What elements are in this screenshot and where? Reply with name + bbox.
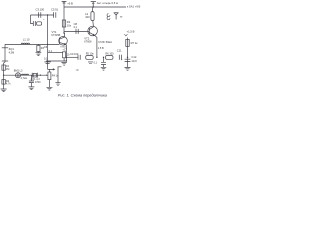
- svg-text:0,5 Вт 50мА: 0,5 Вт 50мА: [98, 41, 112, 44]
- terminal +9V left: [62, 1, 67, 3]
- svg-text:≈0: ≈0: [76, 69, 79, 72]
- crystal plate top: [2, 47, 8, 49]
- resistor R7: [126, 39, 129, 46]
- ground right: [125, 67, 131, 70]
- svg-text:+1,5 В: +1,5 В: [127, 30, 135, 34]
- wire stub C7: [63, 58, 65, 61]
- wire feedback stub: [31, 15, 34, 24]
- ground C10: [101, 67, 107, 70]
- svg-text:С9 100: С9 100: [70, 53, 79, 56]
- svg-text:C5 91: C5 91: [51, 8, 59, 12]
- wire vertical V1: [47, 15, 49, 69]
- plate bottom x58: [55, 83, 60, 86]
- wire base rail left: [5, 43, 59, 45]
- trimmer wiper arrow: [48, 69, 55, 72]
- node W1 V1: [47, 44, 48, 45]
- svg-text:0,1: 0,1: [44, 57, 48, 60]
- svg-text:4,7мк: 4,7мк: [21, 77, 28, 80]
- svg-text:4,7к: 4,7к: [6, 82, 11, 85]
- capacitor C4: [33, 21, 35, 26]
- svg-text:0,1: 0,1: [49, 50, 53, 53]
- wire right vertical: [127, 38, 129, 68]
- node emitter W2 right: [66, 57, 67, 58]
- node collector VT1: [63, 32, 64, 33]
- coupling coil: [107, 14, 110, 20]
- svg-text:10,0: 10,0: [131, 59, 137, 63]
- svg-text:R6 100: R6 100: [106, 52, 115, 55]
- resistor R3: [37, 44, 39, 45]
- wire base VT2: [64, 30, 89, 32]
- node V1 top: [47, 14, 48, 15]
- wire R4 ground: [48, 80, 50, 88]
- ground R4: [46, 87, 52, 90]
- transistor VT1: [59, 37, 68, 46]
- svg-text:100: 100: [85, 15, 90, 19]
- antenna aux: [114, 13, 119, 20]
- ground mic branch: [29, 87, 35, 90]
- node C10: [103, 57, 104, 58]
- node mic wire: [3, 75, 4, 76]
- capacitor C9: [78, 55, 80, 60]
- svg-text:*: *: [43, 19, 44, 22]
- wire W2 left: [46, 60, 66, 62]
- wire mid horizontal upper: [48, 51, 63, 53]
- svg-text:4700: 4700: [35, 81, 41, 84]
- ground R3: [36, 52, 42, 56]
- svg-text:BM1 L3: BM1 L3: [14, 69, 23, 72]
- capacitor C8: [76, 29, 78, 34]
- svg-text:L1 10: L1 10: [23, 37, 30, 41]
- wire vertical V2: [63, 1, 65, 33]
- svg-text:R7 1к: R7 1к: [131, 41, 139, 45]
- svg-text:R5 10к: R5 10к: [86, 52, 95, 55]
- svg-text:С12: С12: [131, 55, 136, 59]
- capacitor C3: [39, 12, 41, 18]
- wire emitter VT1: [65, 45, 68, 62]
- dash aux: [120, 16, 122, 18]
- resistor R5: [86, 56, 94, 60]
- node emitter VT1 W2: [66, 60, 67, 61]
- svg-text:Рис. 1. Схема передатчика: Рис. 1. Схема передатчика: [58, 93, 107, 97]
- capacitor C10: [103, 57, 105, 62]
- node before R4: [40, 75, 41, 76]
- resistor R6: [106, 56, 114, 60]
- inductor L2: [91, 12, 94, 21]
- svg-text:ZQ1: ZQ1: [9, 47, 15, 51]
- inductor L4: [37, 22, 42, 25]
- capacitor branch mic: [30, 75, 32, 81]
- wire collector VT2: [92, 21, 95, 27]
- wire emitter VT2: [95, 35, 97, 57]
- ground C7: [61, 62, 66, 65]
- resistor R1: [2, 65, 5, 70]
- svg-text:1М: 1М: [6, 68, 9, 71]
- capacitor C5: [54, 12, 56, 18]
- arrow into R4: [46, 74, 48, 76]
- svg-text:0,1: 0,1: [74, 26, 78, 29]
- wire top-left horizontal: [31, 14, 54, 16]
- wire left vertical: [4, 44, 5, 89]
- capacitor C11: [119, 55, 121, 60]
- wire L2 rail: [92, 7, 94, 12]
- svg-text:+9 В: +9 В: [67, 1, 73, 5]
- resistor R2: [62, 20, 65, 27]
- ground left: [1, 89, 7, 92]
- inductor L1: [21, 43, 29, 44]
- wire microphone row: [4, 74, 47, 76]
- inductor L3: [21, 74, 28, 75]
- svg-text:10к: 10к: [67, 23, 72, 27]
- plates below V1: [44, 62, 50, 64]
- svg-text:С11: С11: [117, 48, 122, 52]
- antenna WA1: [91, 2, 96, 8]
- svg-text:R4 1к: R4 1к: [52, 75, 59, 78]
- svg-text:КТ315Б: КТ315Б: [52, 34, 61, 37]
- electrolytic C7: [63, 52, 66, 58]
- svg-text:4,3М: 4,3М: [9, 52, 15, 55]
- svg-text:C6: C6: [44, 46, 48, 49]
- wire stray vertical: [58, 67, 61, 83]
- svg-text:КТ608: КТ608: [84, 40, 92, 43]
- terminal mark: [124, 34, 127, 36]
- wire W2 right: [66, 56, 78, 58]
- resistor R2b: [2, 80, 5, 85]
- svg-text:+С7: +С7: [62, 48, 67, 51]
- svg-text:Ант. штырь 0,5 м: Ант. штырь 0,5 м: [97, 1, 118, 5]
- crystal ZQ1: [32, 73, 37, 78]
- svg-text:к SA1 +9 В: к SA1 +9 В: [127, 4, 141, 8]
- transistor VT2: [88, 26, 98, 36]
- node W2 right end: [127, 57, 128, 58]
- svg-text:+: +: [121, 59, 123, 62]
- node rail antenna: [93, 6, 94, 7]
- electrolytic C12: [125, 59, 131, 61]
- node emitter VT2 W2: [96, 57, 97, 58]
- crystal plate bottom: [2, 60, 8, 62]
- svg-text:0,1: 0,1: [94, 62, 98, 65]
- power rail: [64, 6, 126, 8]
- microphone BM1: [16, 73, 21, 78]
- resistor R4 trimmer: [48, 72, 51, 80]
- svg-text:C3 100: C3 100: [36, 8, 45, 12]
- svg-text:1,5 В: 1,5 В: [98, 47, 104, 50]
